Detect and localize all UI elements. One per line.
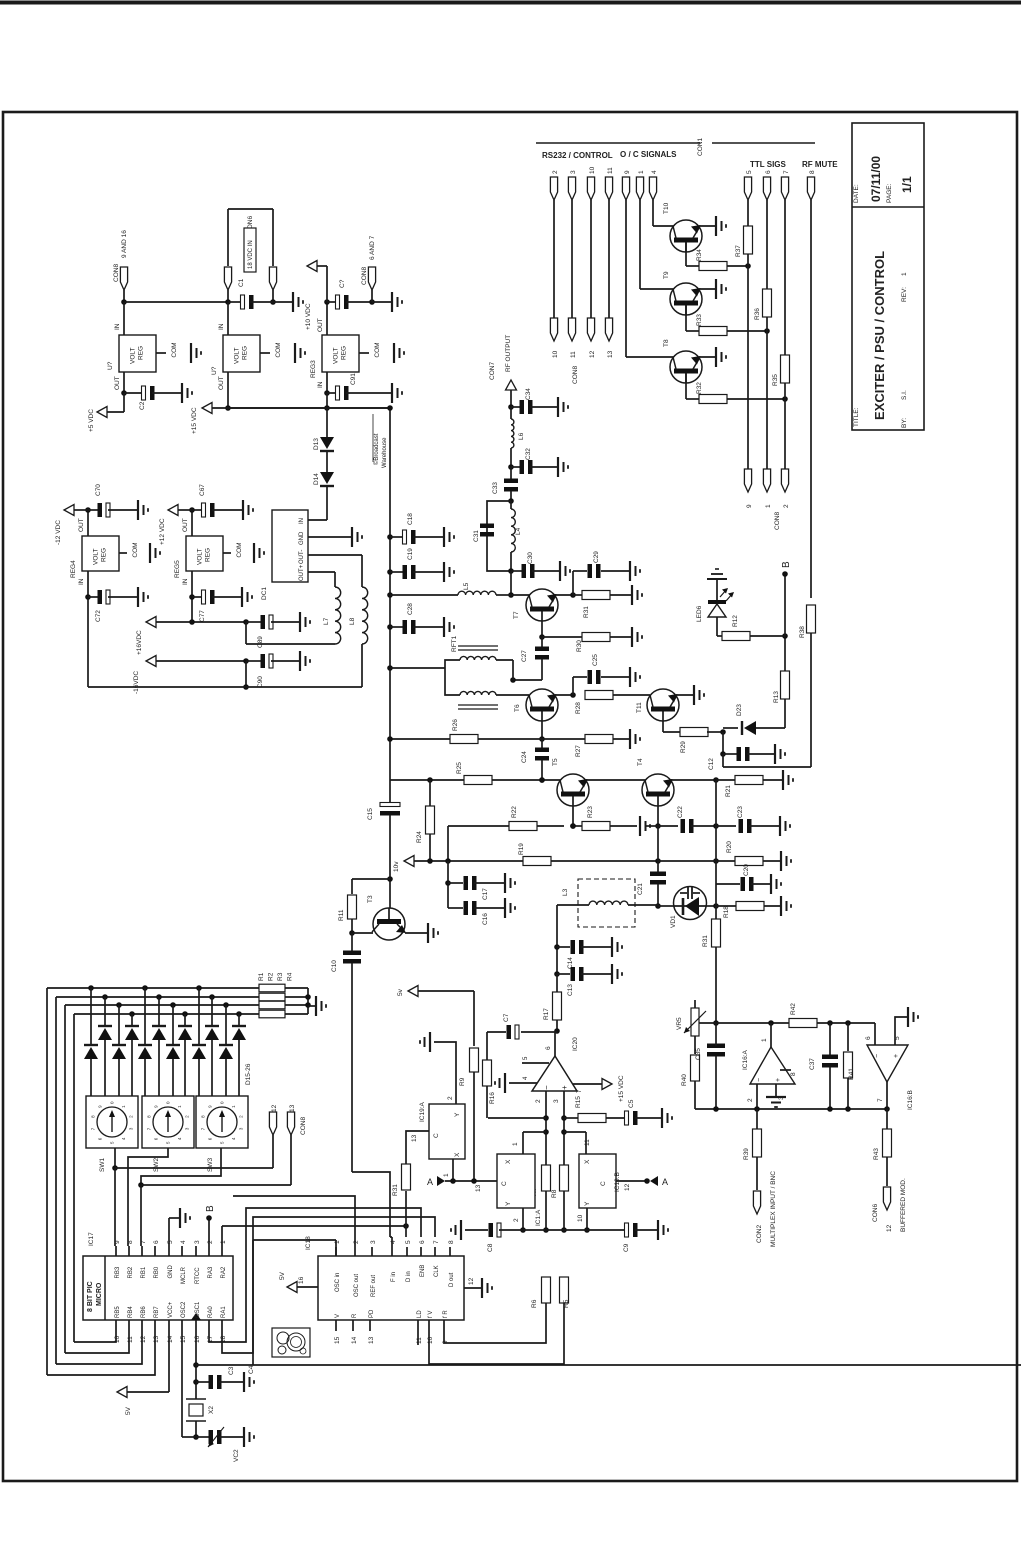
svg-text:14: 14 xyxy=(351,1336,358,1344)
svg-text:R30: R30 xyxy=(576,640,583,652)
svg-text:RA3: RA3 xyxy=(208,1266,214,1278)
svg-text:8: 8 xyxy=(790,1072,797,1076)
svg-text:R3: R3 xyxy=(277,972,284,981)
svg-text:C15: C15 xyxy=(367,808,374,820)
svg-text:CON7: CON7 xyxy=(489,362,496,380)
svg-text:-12 VDC: -12 VDC xyxy=(55,520,62,545)
svg-text:RFT1: RFT1 xyxy=(451,635,458,652)
svg-text:REG: REG xyxy=(138,346,145,360)
svg-text:Warehouse: Warehouse xyxy=(382,437,388,468)
svg-text:C77: C77 xyxy=(199,610,206,622)
svg-text:2: 2 xyxy=(535,1099,542,1103)
svg-text:REG4: REG4 xyxy=(70,560,77,578)
svg-text:BY:: BY: xyxy=(901,418,908,428)
svg-text:REV:: REV: xyxy=(901,287,908,302)
svg-text:C: C xyxy=(501,1181,508,1186)
svg-text:R8: R8 xyxy=(551,1189,558,1198)
svg-text:+: + xyxy=(560,1085,569,1090)
svg-text:VOLT: VOLT xyxy=(197,548,204,565)
svg-text:D15-26: D15-26 xyxy=(245,1063,252,1085)
svg-text:VOLT: VOLT xyxy=(333,347,340,364)
svg-text:T11: T11 xyxy=(636,702,643,713)
svg-text:RS232 / CONTROL: RS232 / CONTROL xyxy=(542,151,613,160)
svg-text:RB1: RB1 xyxy=(141,1266,147,1278)
svg-text:R42: R42 xyxy=(790,1003,797,1015)
svg-text:D23: D23 xyxy=(736,704,743,716)
svg-text:TTL SIGS: TTL SIGS xyxy=(750,160,787,169)
svg-text:16: 16 xyxy=(194,1335,201,1343)
svg-text:+5 VDC: +5 VDC xyxy=(88,409,95,432)
svg-text:C3: C3 xyxy=(228,1366,235,1375)
svg-text:-16VDC: -16VDC xyxy=(133,671,140,694)
svg-text:IC20: IC20 xyxy=(572,1037,579,1051)
svg-text:IC19:B: IC19:B xyxy=(614,1172,621,1192)
svg-text:16: 16 xyxy=(298,1276,305,1284)
svg-text:DC1: DC1 xyxy=(261,587,268,600)
svg-text:R20: R20 xyxy=(726,841,733,853)
svg-text:PD: PD xyxy=(369,1309,375,1318)
svg-text:C67: C67 xyxy=(199,484,206,496)
svg-text:R23: R23 xyxy=(587,806,594,818)
svg-text:7: 7 xyxy=(783,170,790,174)
svg-text:5: 5 xyxy=(167,1240,174,1244)
svg-text:RB2: RB2 xyxy=(128,1266,134,1278)
svg-text:VCC+: VCC+ xyxy=(168,1301,174,1318)
svg-text:10: 10 xyxy=(427,1336,434,1344)
svg-text:L6: L6 xyxy=(518,432,525,440)
svg-text:f V: f V xyxy=(428,1311,434,1318)
svg-text:10v: 10v xyxy=(393,861,400,872)
svg-text:R9: R9 xyxy=(459,1077,466,1086)
svg-text:1: 1 xyxy=(220,1240,227,1244)
svg-text:RF OUTPUT: RF OUTPUT xyxy=(505,335,512,372)
svg-text:12: 12 xyxy=(140,1335,147,1343)
svg-text:10: 10 xyxy=(589,166,596,174)
svg-text:7: 7 xyxy=(433,1240,440,1244)
svg-text:12: 12 xyxy=(886,1224,893,1232)
svg-text:R39: R39 xyxy=(743,1148,750,1160)
svg-text:R6: R6 xyxy=(531,1299,538,1308)
svg-text:4: 4 xyxy=(651,170,658,174)
svg-text:11: 11 xyxy=(584,1139,591,1146)
svg-text:C: C xyxy=(600,1181,607,1186)
svg-text:ENB: ENB xyxy=(420,1265,426,1277)
svg-text:5: 5 xyxy=(405,1240,412,1244)
svg-text:C5: C5 xyxy=(628,1099,635,1108)
svg-text:R4: R4 xyxy=(287,972,294,981)
svg-text:REG: REG xyxy=(205,548,212,562)
svg-text:R13: R13 xyxy=(773,691,780,703)
svg-text:R28: R28 xyxy=(575,702,582,714)
svg-text:A: A xyxy=(427,1177,433,1187)
svg-text:RF MUTE: RF MUTE xyxy=(802,160,838,169)
svg-text:C30: C30 xyxy=(527,552,534,564)
svg-text:R24: R24 xyxy=(416,831,423,843)
svg-text:VOLT: VOLT xyxy=(130,347,137,364)
svg-text:OUT: OUT xyxy=(114,376,121,390)
svg-text:−: − xyxy=(542,1085,551,1090)
svg-text:3: 3 xyxy=(553,1099,560,1103)
svg-text:2: 2 xyxy=(207,1240,214,1244)
svg-text:R11: R11 xyxy=(338,909,345,921)
svg-text:C33: C33 xyxy=(492,482,499,494)
svg-text:MULTIPLEX INPUT / BNC: MULTIPLEX INPUT / BNC xyxy=(770,1171,777,1247)
svg-text:T4: T4 xyxy=(637,758,644,766)
svg-text:5: 5 xyxy=(894,1036,901,1040)
svg-text:O / C SIGNALS: O / C SIGNALS xyxy=(620,150,677,159)
svg-text:1: 1 xyxy=(334,1240,341,1244)
svg-text:IC1:A: IC1:A xyxy=(535,1209,542,1226)
svg-text:R: R xyxy=(352,1313,358,1318)
svg-text:11: 11 xyxy=(570,351,577,358)
svg-text:13: 13 xyxy=(411,1134,418,1142)
svg-text:OUT+: OUT+ xyxy=(299,564,305,581)
svg-text:C37: C37 xyxy=(809,1058,816,1070)
svg-text:T7: T7 xyxy=(513,611,520,619)
svg-text:Y: Y xyxy=(584,1201,591,1206)
svg-text:4: 4 xyxy=(390,1240,397,1244)
svg-text:EXCITER / PSU / CONTROL: EXCITER / PSU / CONTROL xyxy=(872,251,887,420)
svg-text:L7: L7 xyxy=(323,617,330,625)
svg-text:C13: C13 xyxy=(567,984,574,996)
svg-text:3: 3 xyxy=(194,1240,201,1244)
svg-text:C20: C20 xyxy=(743,864,750,876)
svg-text:C29: C29 xyxy=(593,551,600,563)
svg-text:U?: U? xyxy=(211,366,218,375)
svg-text:A: A xyxy=(662,1177,668,1187)
svg-text:7: 7 xyxy=(140,1240,147,1244)
svg-text:VOLT: VOLT xyxy=(234,347,241,364)
svg-text:−: − xyxy=(756,1078,763,1082)
svg-text:L4: L4 xyxy=(515,527,522,535)
svg-text:+15 VDC: +15 VDC xyxy=(191,407,198,434)
svg-text:15: 15 xyxy=(180,1335,187,1343)
svg-text:+: + xyxy=(893,1054,900,1058)
svg-text:C7: C7 xyxy=(503,1013,510,1022)
svg-text:OSC in: OSC in xyxy=(335,1273,341,1292)
svg-text:C32: C32 xyxy=(525,448,532,460)
svg-text:R27: R27 xyxy=(575,745,582,757)
svg-text:RA0: RA0 xyxy=(208,1306,214,1318)
svg-text:R40: R40 xyxy=(681,1074,688,1086)
svg-text:6: 6 xyxy=(419,1240,426,1244)
svg-text:C8: C8 xyxy=(487,1243,494,1252)
svg-text:1: 1 xyxy=(765,504,772,508)
svg-text:C: C xyxy=(433,1133,440,1138)
svg-text:T8: T8 xyxy=(663,339,670,347)
svg-text:IN: IN xyxy=(78,578,85,585)
svg-text:10: 10 xyxy=(577,1214,584,1222)
svg-text:2: 2 xyxy=(513,1218,520,1222)
svg-text:R26: R26 xyxy=(452,719,459,731)
svg-text:+12 VDC: +12 VDC xyxy=(159,518,166,545)
svg-text:R37: R37 xyxy=(735,245,742,257)
svg-text:L3: L3 xyxy=(562,888,569,896)
svg-text:R17: R17 xyxy=(543,1008,550,1020)
svg-text:6: 6 xyxy=(153,1240,160,1244)
svg-text:IC18: IC18 xyxy=(305,1236,312,1250)
svg-text:11: 11 xyxy=(416,1337,423,1344)
svg-text:R19: R19 xyxy=(518,843,525,855)
svg-text:R2: R2 xyxy=(268,972,275,981)
svg-text:C72: C72 xyxy=(95,610,102,622)
svg-text:R36: R36 xyxy=(754,308,761,320)
svg-text:12: 12 xyxy=(624,1183,631,1191)
svg-text:B: B xyxy=(205,1205,216,1212)
svg-text:C25: C25 xyxy=(592,654,599,666)
svg-text:CON6: CON6 xyxy=(872,1204,879,1222)
svg-text:2: 2 xyxy=(353,1240,360,1244)
svg-text:R21: R21 xyxy=(725,785,732,797)
svg-text:D in: D in xyxy=(406,1271,412,1282)
svg-text:CON8: CON8 xyxy=(572,366,579,384)
svg-text:C89: C89 xyxy=(257,636,264,648)
svg-text:R35: R35 xyxy=(772,374,779,386)
svg-text:L5: L5 xyxy=(463,582,470,590)
svg-text:LED6: LED6 xyxy=(696,605,703,622)
svg-text:T10: T10 xyxy=(663,202,670,214)
svg-text:7: 7 xyxy=(877,1098,884,1102)
svg-text:10: 10 xyxy=(552,350,559,358)
svg-text:C21: C21 xyxy=(637,883,644,895)
svg-text:13: 13 xyxy=(289,1104,296,1112)
svg-text:13: 13 xyxy=(607,350,614,358)
svg-text:RB3: RB3 xyxy=(115,1266,121,1278)
svg-text:COM: COM xyxy=(275,342,282,357)
svg-text:©Broadcast: ©Broadcast xyxy=(373,433,380,465)
svg-text:4: 4 xyxy=(180,1240,187,1244)
svg-text:T6: T6 xyxy=(514,704,521,712)
svg-text:V: V xyxy=(335,1314,341,1318)
svg-text:GND: GND xyxy=(168,1265,174,1279)
svg-text:3: 3 xyxy=(570,170,577,174)
svg-text:12: 12 xyxy=(271,1104,278,1112)
svg-text:9: 9 xyxy=(114,1240,121,1244)
svg-text:GND: GND xyxy=(299,531,305,545)
svg-text:9 AND 16: 9 AND 16 xyxy=(121,230,128,258)
svg-text:C19: C19 xyxy=(407,548,414,560)
svg-text:−: − xyxy=(874,1054,881,1058)
svg-text:C?: C? xyxy=(339,279,346,288)
svg-text:IN: IN xyxy=(317,381,324,388)
svg-text:R29: R29 xyxy=(680,741,687,753)
svg-text:1: 1 xyxy=(761,1038,768,1042)
svg-text:1: 1 xyxy=(638,170,645,174)
svg-text:C28: C28 xyxy=(407,603,414,615)
svg-text:C31: C31 xyxy=(473,530,480,542)
svg-text:OUT: OUT xyxy=(182,518,189,532)
svg-text:R25: R25 xyxy=(456,762,463,774)
svg-text:12: 12 xyxy=(468,1277,475,1285)
svg-text:11: 11 xyxy=(607,167,614,174)
svg-text:C34: C34 xyxy=(525,388,532,400)
svg-text:C23: C23 xyxy=(737,806,744,818)
svg-text:R22: R22 xyxy=(511,806,518,818)
svg-text:C27: C27 xyxy=(521,650,528,662)
svg-text:T3: T3 xyxy=(367,895,374,903)
svg-text:CON1: CON1 xyxy=(697,138,704,156)
svg-text:R31: R31 xyxy=(392,1184,399,1196)
svg-text:8 BIT PIC: 8 BIT PIC xyxy=(87,1281,94,1312)
svg-text:6: 6 xyxy=(545,1046,552,1050)
svg-text:2: 2 xyxy=(447,1096,454,1100)
svg-text:C18: C18 xyxy=(407,513,414,525)
svg-text:REG: REG xyxy=(242,346,249,360)
svg-text:IC17: IC17 xyxy=(88,1232,95,1246)
svg-text:R38: R38 xyxy=(799,626,806,638)
svg-text:R16: R16 xyxy=(489,1092,496,1104)
svg-text:X: X xyxy=(505,1159,512,1164)
svg-text:R33: R33 xyxy=(696,314,703,326)
svg-text:RA2: RA2 xyxy=(221,1266,227,1278)
svg-text:BUFFERED MOD.: BUFFERED MOD. xyxy=(900,1178,907,1232)
svg-text:COM: COM xyxy=(132,542,139,557)
svg-text:C24: C24 xyxy=(521,751,528,763)
svg-text:14: 14 xyxy=(167,1335,174,1343)
svg-text:C9: C9 xyxy=(623,1243,630,1252)
svg-text:1: 1 xyxy=(512,1142,519,1146)
svg-text:OSC1: OSC1 xyxy=(195,1301,201,1318)
svg-text:SW2: SW2 xyxy=(153,1158,160,1172)
svg-text:R12: R12 xyxy=(732,615,739,627)
svg-text:C91: C91 xyxy=(350,373,357,385)
svg-text:MCLR: MCLR xyxy=(181,1266,187,1284)
svg-text:C16: C16 xyxy=(482,913,489,925)
svg-text:RB5: RB5 xyxy=(115,1306,121,1318)
svg-text:2: 2 xyxy=(552,170,559,174)
svg-text:+10 VDC: +10 VDC xyxy=(305,303,312,330)
svg-text:IN: IN xyxy=(299,518,305,524)
svg-text:U?: U? xyxy=(107,361,114,370)
svg-text:OSC2: OSC2 xyxy=(181,1301,187,1318)
svg-text:CLK: CLK xyxy=(434,1265,440,1277)
svg-text:C2: C2 xyxy=(139,401,146,410)
svg-text:11: 11 xyxy=(127,1336,134,1343)
svg-text:X2: X2 xyxy=(208,1406,215,1414)
svg-text:CON8: CON8 xyxy=(300,1117,307,1135)
svg-text:2: 2 xyxy=(783,504,790,508)
svg-text:REG: REG xyxy=(341,346,348,360)
svg-text:18 VDC IN: 18 VDC IN xyxy=(248,240,254,269)
svg-text:C35: C35 xyxy=(695,1048,702,1060)
svg-text:C12: C12 xyxy=(708,758,715,770)
svg-text:OUT: OUT xyxy=(218,376,225,390)
svg-text:RB0: RB0 xyxy=(154,1266,160,1278)
svg-text:COM: COM xyxy=(171,342,178,357)
svg-text:2: 2 xyxy=(747,1098,754,1102)
svg-text:C22: C22 xyxy=(677,806,684,818)
svg-text:RB4: RB4 xyxy=(128,1306,134,1318)
svg-text:OUT: OUT xyxy=(317,318,324,332)
svg-text:13: 13 xyxy=(368,1336,375,1344)
svg-text:L8: L8 xyxy=(349,617,356,625)
svg-text:1/1: 1/1 xyxy=(900,176,914,193)
svg-text:C4: C4 xyxy=(248,1365,255,1374)
svg-text:+: + xyxy=(775,1078,782,1082)
svg-text:Y: Y xyxy=(505,1201,512,1206)
svg-text:C70: C70 xyxy=(95,484,102,496)
svg-text:VD1: VD1 xyxy=(670,915,677,928)
svg-text:+16VDC: +16VDC xyxy=(136,630,143,655)
svg-text:6: 6 xyxy=(765,170,772,174)
svg-text:IC16:A: IC16:A xyxy=(742,1049,749,1070)
svg-text:CON2: CON2 xyxy=(756,1225,763,1243)
svg-text:IC16:B: IC16:B xyxy=(907,1090,914,1110)
svg-text:5V: 5V xyxy=(279,1271,286,1280)
svg-text:8: 8 xyxy=(809,170,816,174)
svg-text:15: 15 xyxy=(334,1336,341,1344)
svg-text:REG3: REG3 xyxy=(310,360,317,378)
svg-text:COM: COM xyxy=(374,342,381,357)
svg-text:MICRO: MICRO xyxy=(96,1282,103,1306)
svg-text:OUT: OUT xyxy=(78,518,85,532)
svg-text:13: 13 xyxy=(475,1184,482,1192)
svg-text:1: 1 xyxy=(901,272,908,276)
svg-text:f R: f R xyxy=(443,1310,449,1318)
svg-text:T9: T9 xyxy=(663,271,670,279)
svg-text:IN: IN xyxy=(218,323,225,330)
svg-text:RTCC: RTCC xyxy=(195,1267,201,1284)
svg-text:F in: F in xyxy=(391,1272,397,1282)
svg-text:S.I.: S.I. xyxy=(901,390,908,400)
svg-text:REG5: REG5 xyxy=(174,560,181,578)
svg-text:RB6: RB6 xyxy=(141,1306,147,1318)
svg-text:TITLE:: TITLE: xyxy=(853,407,860,427)
svg-text:R15: R15 xyxy=(575,1096,582,1108)
svg-text:T5: T5 xyxy=(552,758,559,766)
svg-text:5: 5 xyxy=(746,170,753,174)
svg-text:8: 8 xyxy=(127,1240,134,1244)
svg-text:6 AND 7: 6 AND 7 xyxy=(369,235,376,260)
svg-text:D13: D13 xyxy=(313,438,320,450)
svg-text:COM: COM xyxy=(236,542,243,557)
svg-text:9: 9 xyxy=(746,504,753,508)
svg-text:SW3: SW3 xyxy=(207,1158,214,1172)
svg-text:3: 3 xyxy=(370,1240,377,1244)
svg-text:R31: R31 xyxy=(583,606,590,618)
svg-text:R32: R32 xyxy=(696,382,703,394)
svg-text:RA1: RA1 xyxy=(221,1306,227,1318)
svg-text:VC2: VC2 xyxy=(233,1449,240,1462)
svg-text:C10: C10 xyxy=(331,960,338,972)
svg-text:LD: LD xyxy=(417,1310,423,1318)
svg-text:OUT-: OUT- xyxy=(299,550,305,564)
svg-text:13: 13 xyxy=(153,1335,160,1343)
svg-text:RB7: RB7 xyxy=(154,1306,160,1318)
svg-text:CON8: CON8 xyxy=(361,267,368,285)
svg-text:CON8: CON8 xyxy=(113,264,120,282)
svg-text:R43: R43 xyxy=(873,1148,880,1160)
svg-text:Y: Y xyxy=(454,1112,461,1117)
svg-text:C1: C1 xyxy=(238,278,245,287)
svg-text:REG: REG xyxy=(101,548,108,562)
svg-text:SW1: SW1 xyxy=(99,1158,106,1172)
svg-text:R1: R1 xyxy=(258,972,265,981)
svg-text:VOLT: VOLT xyxy=(93,548,100,565)
svg-text:X: X xyxy=(454,1152,461,1157)
svg-text:07/11/00: 07/11/00 xyxy=(869,156,883,202)
svg-text:12: 12 xyxy=(589,350,596,358)
svg-text:D14: D14 xyxy=(313,473,320,485)
svg-text:C17: C17 xyxy=(482,888,489,900)
svg-text:DATE:: DATE: xyxy=(853,184,860,203)
svg-text:1: 1 xyxy=(443,1173,450,1177)
svg-text:5v: 5v xyxy=(397,988,404,996)
svg-text:IN: IN xyxy=(114,323,121,330)
svg-text:R41: R41 xyxy=(848,1068,855,1080)
svg-text:OSC out: OSC out xyxy=(354,1274,360,1297)
svg-text:8: 8 xyxy=(448,1240,455,1244)
